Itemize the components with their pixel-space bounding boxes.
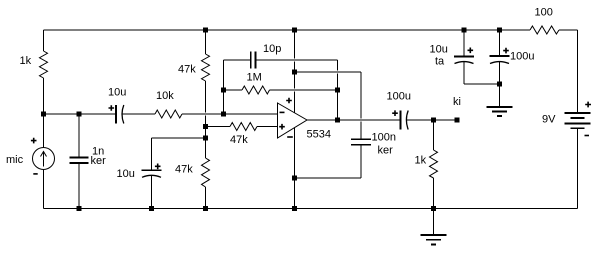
node ki	[455, 118, 460, 123]
wire bias bypass branch	[152, 138, 206, 209]
wire battery top	[577, 30, 579, 112]
svg-text:1M: 1M	[247, 72, 262, 84]
wire feedback left	[223, 60, 225, 114]
wire positive supply stub	[294, 30, 296, 113]
svg-text:ta: ta	[435, 56, 445, 68]
junction filter 100u top	[497, 28, 502, 33]
resistor 47k lower divider	[202, 158, 210, 187]
capacitor 10u ta supply filter	[463, 30, 465, 84]
svg-text:47k: 47k	[230, 134, 248, 146]
junction input-1k	[41, 112, 46, 117]
svg-text:9V: 9V	[542, 114, 556, 126]
junction filter ta top	[462, 28, 467, 33]
wire negative supply stub	[294, 128, 296, 209]
capacitor 100u supply filter	[499, 30, 501, 84]
junction feedback right	[335, 88, 340, 93]
svg-text:10u: 10u	[430, 44, 448, 56]
wire input row	[44, 113, 278, 115]
svg-text:1k: 1k	[415, 155, 427, 167]
junction divider bypass	[203, 136, 208, 141]
junction bottom rail bypass cap	[149, 206, 154, 211]
capacitor 10u input coupling	[115, 105, 117, 124]
capacitor 100u output coupling	[400, 111, 402, 130]
svg-text:47k: 47k	[175, 164, 193, 176]
wire output row	[307, 119, 457, 121]
junction input-feedback	[221, 112, 226, 117]
resistor 10k	[155, 110, 182, 118]
svg-text:100: 100	[535, 7, 553, 19]
svg-text:10u: 10u	[117, 168, 135, 180]
junction feedback left	[221, 88, 226, 93]
svg-text:100u: 100u	[510, 51, 534, 63]
svg-text:mic: mic	[6, 154, 24, 166]
wire top rail	[44, 29, 578, 31]
svg-text:ker: ker	[378, 145, 394, 157]
capacitor 100n ker supply bypass	[351, 138, 371, 140]
wire mic branch	[43, 114, 45, 209]
svg-text:47k: 47k	[178, 64, 196, 76]
wire filter branch	[464, 83, 500, 85]
junction supply stub top	[292, 28, 297, 33]
ground load	[433, 209, 435, 236]
junction bottom rail divider	[203, 206, 208, 211]
resistor 1k load	[433, 120, 435, 209]
battery 9V	[565, 112, 591, 114]
resistor 47k upper divider	[202, 54, 210, 81]
capacitor 1n ker	[78, 114, 80, 209]
svg-text:ki: ki	[453, 96, 461, 108]
wire bottom rail	[44, 208, 578, 210]
junction input-1n	[77, 112, 82, 117]
resistor 47k noninverting	[230, 123, 257, 131]
resistor 1M feedback	[224, 89, 338, 91]
op-amp 5534	[278, 103, 308, 138]
junction divider mid	[203, 124, 208, 129]
junction bypass bottom	[292, 176, 297, 181]
junction output feedback	[335, 118, 340, 123]
junction output load	[431, 118, 436, 123]
svg-text:1k: 1k	[20, 55, 32, 67]
wire divider branch	[205, 30, 207, 209]
capacitor 10u divider bypass	[142, 169, 162, 171]
junction bypass top	[292, 70, 297, 75]
resistor 100	[530, 26, 559, 34]
mic source	[33, 148, 55, 170]
wire battery bottom	[577, 129, 579, 209]
svg-text:100u: 100u	[387, 91, 411, 103]
svg-text:10u: 10u	[108, 87, 126, 99]
svg-text:10p: 10p	[263, 43, 281, 55]
svg-text:10k: 10k	[156, 90, 174, 102]
junction bottom rail 1n	[77, 206, 82, 211]
wire noninverting row	[206, 126, 278, 128]
junction negative stub bottom rail	[292, 206, 297, 211]
svg-text:100n: 100n	[372, 132, 396, 144]
junction filter ground	[497, 82, 502, 87]
wire bypass branch	[295, 72, 362, 178]
capacitor 10p feedback	[224, 59, 338, 61]
ground filter	[499, 84, 501, 107]
resistor 1k	[43, 30, 45, 114]
junction load bottom rail	[431, 206, 436, 211]
wire feedback right	[337, 60, 339, 120]
svg-text:5534: 5534	[307, 129, 331, 141]
svg-text:ker: ker	[91, 155, 107, 167]
junction divider top	[203, 28, 208, 33]
